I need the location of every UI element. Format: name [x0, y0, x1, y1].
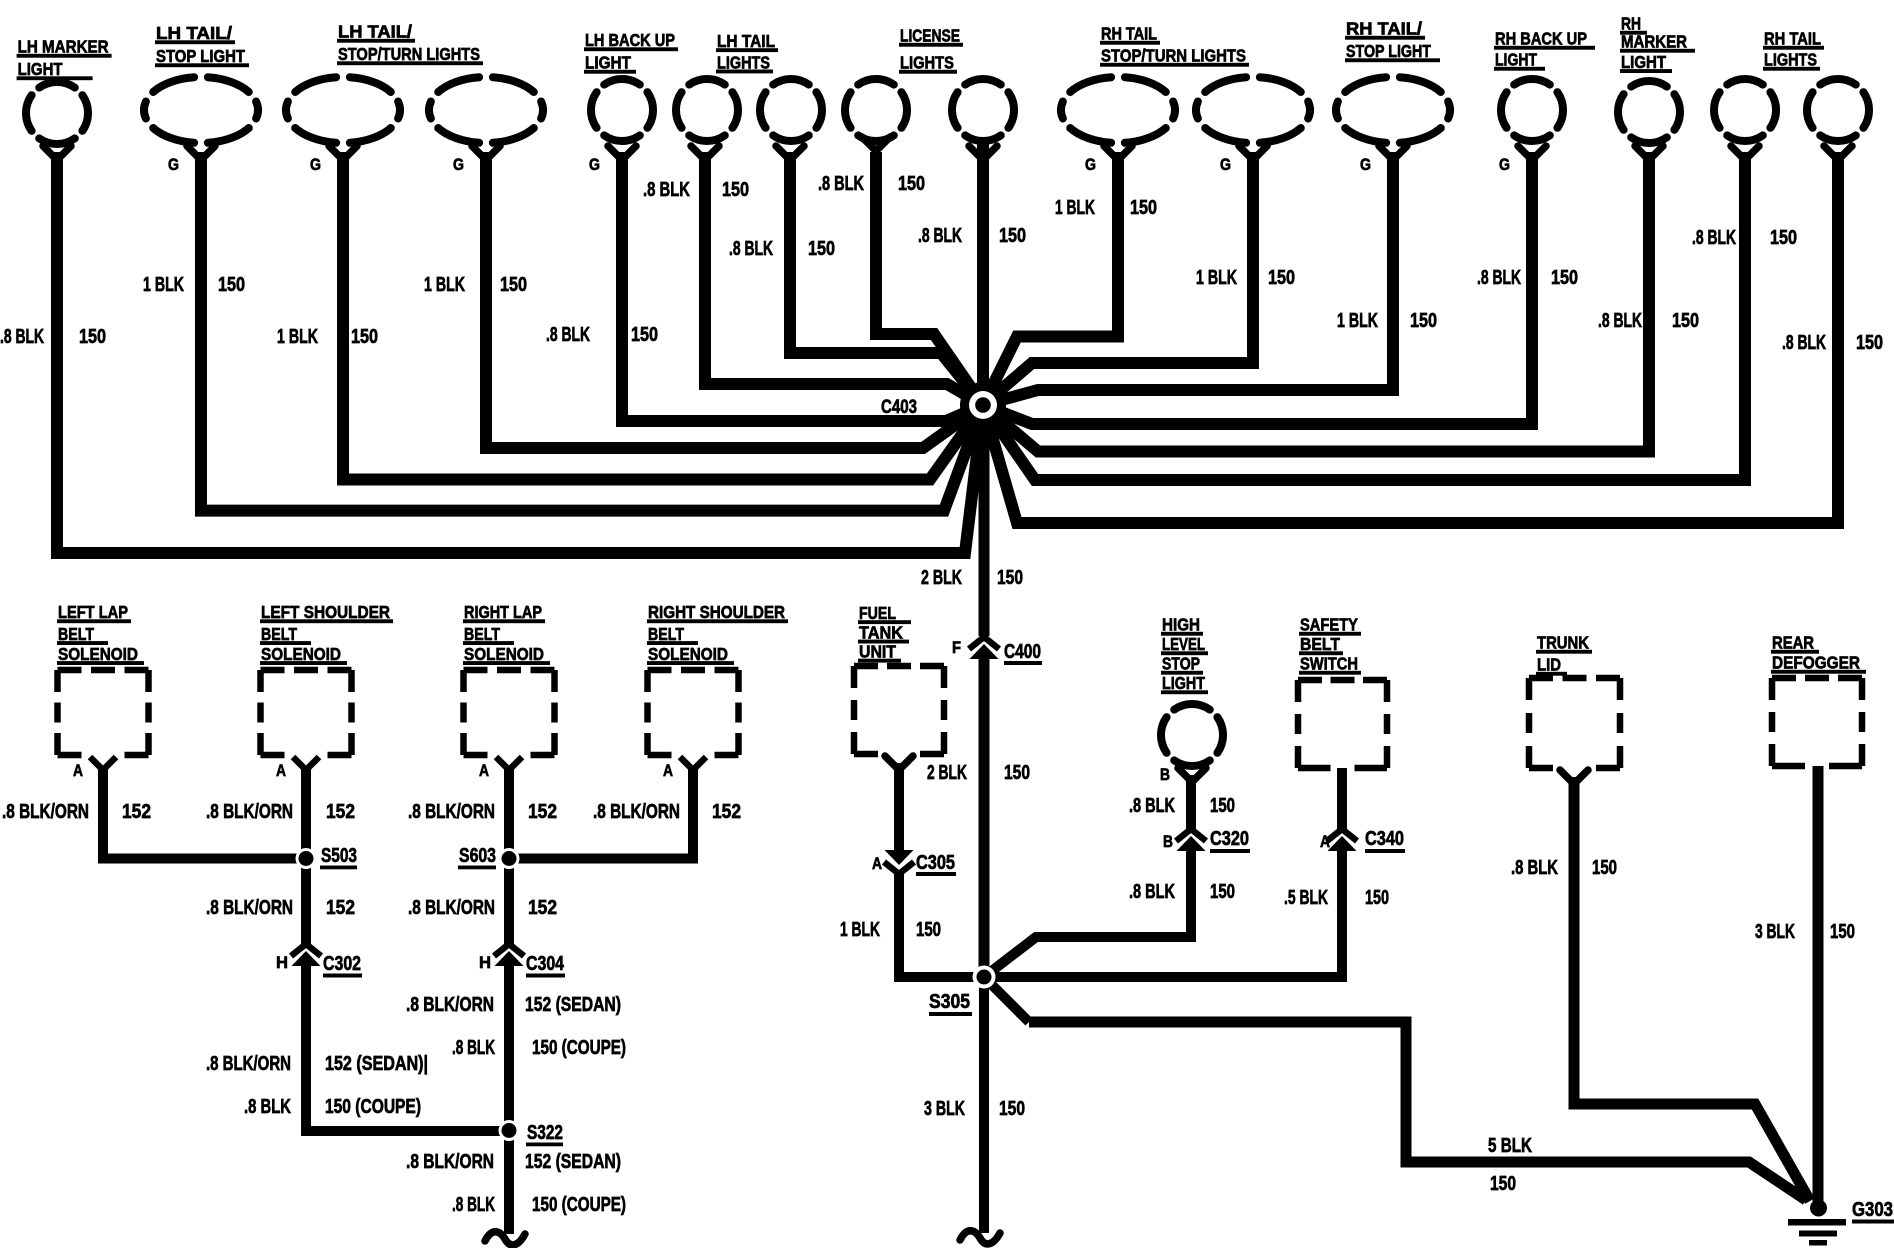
lamp RH TAIL/STOP/TURN 2 — [1196, 77, 1310, 174]
wire label 1 BLK 150 — [143, 274, 245, 296]
svg-text:FUEL: FUEL — [859, 603, 896, 623]
ground G303 — [1810, 1200, 1827, 1217]
svg-text:TANK: TANK — [859, 622, 903, 642]
lamp RH BACK UP LIGHT — [1499, 79, 1563, 174]
splice S503 — [296, 848, 317, 869]
svg-text:.8 BLK: .8 BLK — [244, 1096, 291, 1118]
label A C340 — [1320, 828, 1405, 853]
wire lamp x622 to C403 — [622, 152, 983, 421]
label LICENSE LIGHTS — [899, 26, 963, 74]
svg-text:LIGHT: LIGHT — [585, 53, 631, 73]
wire label .5 BLK 150 — [1284, 887, 1389, 909]
svg-text:150: 150 — [722, 179, 749, 201]
label S305 — [929, 991, 972, 1016]
component box REAR DEFOGGER — [1772, 678, 1862, 766]
svg-text:S503: S503 — [321, 845, 357, 867]
label H C302 — [276, 953, 362, 978]
wire lamp x876 to C403 — [876, 152, 983, 405]
svg-text:A: A — [479, 761, 489, 780]
svg-text:.8 BLK/ORN: .8 BLK/ORN — [593, 801, 680, 823]
svg-text:150: 150 — [1130, 197, 1157, 219]
svg-text:150 (COUPE): 150 (COUPE) — [532, 1194, 626, 1216]
wire lamp x1745 to C403 — [983, 152, 1745, 480]
wire lamp x790 to C403 — [790, 152, 983, 405]
connector V RIGHT SHOULDER — [680, 757, 706, 770]
svg-text:C403: C403 — [881, 397, 917, 418]
label H C304 — [479, 953, 565, 978]
svg-text:SAFETY: SAFETY — [1300, 615, 1358, 635]
svg-text:SOLENOID: SOLENOID — [648, 644, 728, 664]
wire lamp x201 to C403 — [201, 152, 983, 511]
svg-text:.8 BLK: .8 BLK — [729, 238, 773, 260]
label RIGHT LAP BELT SOLENOID — [463, 602, 550, 665]
svg-text:150 (COUPE): 150 (COUPE) — [325, 1096, 421, 1118]
svg-text:A: A — [1320, 832, 1330, 851]
svg-text:.8 BLK: .8 BLK — [546, 324, 590, 346]
continuation hook bottom left — [485, 1232, 525, 1245]
component box LEFT SHOULDER BELT SOLENOID — [261, 670, 352, 755]
svg-text:.8 BLK: .8 BLK — [1598, 310, 1642, 332]
svg-text:150: 150 — [1410, 310, 1437, 332]
connector C305 — [885, 850, 914, 865]
component box RIGHT LAP BELT SOLENOID — [464, 670, 555, 755]
lamp RH TAIL LIGHTS 2 — [1807, 79, 1869, 160]
wire lamp to C320 — [1186, 775, 1196, 830]
svg-text:REAR: REAR — [1772, 633, 1814, 653]
wire lamp x486 to C403 — [486, 152, 983, 448]
svg-text:STOP LIGHT: STOP LIGHT — [1346, 41, 1431, 61]
label HIGH LEVEL STOP LIGHT — [1161, 615, 1208, 695]
svg-text:SOLENOID: SOLENOID — [464, 644, 544, 664]
svg-text:A: A — [663, 761, 673, 780]
svg-text:150: 150 — [1551, 267, 1578, 289]
svg-text:F: F — [952, 638, 961, 657]
label LH TAIL LIGHTS — [716, 31, 778, 73]
svg-text:TRUNK: TRUNK — [1537, 633, 1589, 653]
label S503 — [320, 845, 357, 869]
continuation hook bottom center — [960, 1231, 1000, 1244]
label REAR DEFOGGER — [1771, 633, 1866, 674]
lamp RH MARKER LIGHT — [1618, 81, 1680, 160]
connector Y fuel tank — [885, 756, 913, 770]
wire license lamp2 down to C403 — [977, 143, 989, 405]
label FUEL TANK UNIT — [858, 603, 911, 663]
wire label .8 BLK/ORN 152 — [593, 801, 741, 823]
svg-text:A: A — [73, 761, 83, 780]
svg-text:RH TAIL: RH TAIL — [1101, 24, 1157, 44]
svg-text:G: G — [168, 155, 179, 174]
wire label .8 BLK 150 — [1511, 857, 1617, 879]
wire lamp x57 to C403 — [57, 152, 983, 553]
svg-text:150: 150 — [1770, 227, 1797, 249]
wire label .8 BLK/ORN 152 — [408, 801, 557, 823]
svg-text:150: 150 — [1210, 881, 1235, 903]
lamp LH TAIL/STOP/TURN 2 — [429, 77, 543, 174]
wire C400 down to S305 — [979, 654, 990, 977]
label A C305 — [872, 852, 956, 876]
svg-text:LH TAIL/: LH TAIL/ — [156, 23, 232, 43]
svg-text:.8 BLK: .8 BLK — [452, 1037, 495, 1059]
wire lamp x1649 to C403 — [983, 152, 1649, 452]
wire label .8 BLK/ORN 152 (SEDAN) — [406, 994, 621, 1016]
svg-text:150: 150 — [1210, 795, 1235, 817]
svg-text:G: G — [1360, 155, 1371, 174]
label LEFT LAP BELT SOLENOID — [57, 602, 144, 665]
svg-text:152 (SEDAN): 152 (SEDAN) — [525, 994, 621, 1016]
svg-text:S322: S322 — [527, 1122, 563, 1144]
svg-text:152: 152 — [122, 801, 151, 823]
svg-text:B: B — [1160, 765, 1170, 784]
svg-text:152 (SEDAN): 152 (SEDAN) — [525, 1151, 621, 1173]
svg-text:.8 BLK: .8 BLK — [818, 173, 864, 195]
component box FUEL TANK UNIT — [854, 666, 944, 754]
svg-text:G303: G303 — [1852, 1199, 1893, 1221]
svg-text:G: G — [589, 155, 600, 174]
svg-text:LIGHTS: LIGHTS — [900, 53, 954, 73]
svg-text:MARKER: MARKER — [1621, 32, 1687, 52]
svg-text:STOP: STOP — [1162, 654, 1200, 674]
connector Y high level stop light — [1178, 768, 1206, 782]
wire lamp x1532 to C403 — [983, 152, 1532, 424]
svg-text:150: 150 — [898, 173, 925, 195]
label G303 — [1852, 1199, 1894, 1224]
svg-text:1 BLK: 1 BLK — [143, 274, 184, 296]
wire label 1 BLK 150 — [277, 326, 378, 348]
svg-text:LID: LID — [1537, 655, 1561, 675]
label RH MARKER LIGHT — [1620, 14, 1695, 73]
wire label 1 BLK 150 — [1337, 310, 1437, 332]
svg-text:SOLENOID: SOLENOID — [58, 644, 138, 664]
svg-text:1 BLK: 1 BLK — [424, 274, 465, 296]
wire C305 down to S305 — [899, 874, 984, 977]
wire label .8 BLK 150 (COUPE) — [452, 1194, 626, 1216]
component box LEFT LAP BELT SOLENOID — [58, 670, 149, 755]
lamp RH TAIL/STOP/TURN 1 — [1061, 77, 1175, 174]
svg-text:S305: S305 — [929, 991, 970, 1013]
label LH TAIL/STOP/TURN LIGHTS — [337, 22, 483, 66]
svg-text:HIGH: HIGH — [1162, 615, 1200, 635]
svg-text:.8 BLK/ORN: .8 BLK/ORN — [206, 897, 293, 919]
svg-text:152: 152 — [528, 801, 557, 823]
wire label .8 BLK 150 — [1692, 227, 1797, 249]
svg-text:STOP LIGHT: STOP LIGHT — [156, 46, 245, 66]
svg-text:LIGHT: LIGHT — [1495, 50, 1537, 70]
label LH BACK UP LIGHT — [584, 30, 678, 74]
wire label .8 BLK 150 — [1129, 881, 1235, 903]
wire rear defogger to ground G303 — [1813, 766, 1824, 1203]
svg-text:150: 150 — [500, 274, 527, 296]
wire label .8 BLK/ORN 152 (SEDAN) — [406, 1151, 621, 1173]
lamp RH TAIL LIGHTS 1 — [1714, 79, 1776, 160]
label RIGHT SHOULDER BELT SOLENOID — [647, 602, 788, 665]
svg-text:BELT: BELT — [648, 624, 684, 644]
wire label 1 BLK 150 — [424, 274, 527, 296]
svg-text:A: A — [872, 854, 882, 873]
svg-text:150: 150 — [999, 1098, 1025, 1120]
wire C304 down through S322 to bottom hook — [504, 961, 514, 1234]
wire safety belt switch to C340 — [1337, 768, 1347, 830]
svg-text:.5 BLK: .5 BLK — [1284, 887, 1328, 909]
svg-text:.8 BLK: .8 BLK — [1477, 267, 1521, 289]
svg-text:LH TAIL/: LH TAIL/ — [338, 22, 412, 42]
wire C340 down to S305 — [984, 846, 1342, 977]
svg-text:DEFOGGER: DEFOGGER — [1772, 653, 1860, 673]
wire label .8 BLK/ORN 152 — [408, 897, 557, 919]
svg-text:B: B — [1163, 832, 1173, 851]
wire label .8 BLK/ORN 152 — [206, 801, 355, 823]
svg-text:G: G — [1085, 155, 1096, 174]
svg-text:150: 150 — [1268, 267, 1295, 289]
svg-text:.8 BLK: .8 BLK — [0, 326, 44, 348]
splice S603 — [499, 848, 520, 869]
connector C302 — [291, 944, 321, 956]
label RH BACK UP LIGHT — [1494, 29, 1595, 71]
svg-text:.8 BLK/ORN: .8 BLK/ORN — [406, 1151, 494, 1173]
label S603 — [458, 845, 496, 869]
lamp LH MARKER LIGHT — [26, 82, 88, 160]
svg-text:1 BLK: 1 BLK — [1055, 197, 1095, 219]
wire label .8 BLK 150 (COUPE) — [452, 1037, 626, 1059]
svg-text:G: G — [1499, 155, 1510, 174]
wire left lap to S503 — [103, 766, 306, 859]
svg-text:150: 150 — [218, 274, 245, 296]
svg-text:H: H — [276, 953, 288, 972]
svg-text:150: 150 — [1672, 310, 1699, 332]
svg-text:.8 BLK: .8 BLK — [1782, 332, 1826, 354]
svg-text:150: 150 — [1490, 1173, 1516, 1195]
svg-text:.8 BLK/ORN: .8 BLK/ORN — [408, 897, 495, 919]
svg-text:LH MARKER: LH MARKER — [18, 37, 109, 57]
svg-text:C400: C400 — [1004, 641, 1041, 663]
wire C320 to S305 — [984, 846, 1191, 977]
svg-text:.8 BLK: .8 BLK — [1692, 227, 1736, 249]
svg-text:152: 152 — [528, 897, 557, 919]
lamp LH BACK UP LIGHT — [589, 79, 653, 174]
svg-text:1 BLK: 1 BLK — [1196, 267, 1237, 289]
connector V RIGHT LAP — [496, 757, 522, 770]
connector C340 — [1327, 829, 1357, 841]
wire label 1 BLK 150 — [1055, 197, 1157, 219]
svg-text:LEFT SHOULDER: LEFT SHOULDER — [261, 602, 390, 622]
label LEFT SHOULDER BELT SOLENOID — [260, 602, 393, 665]
wire label .8 BLK 150 — [1129, 795, 1235, 817]
svg-text:150: 150 — [79, 326, 106, 348]
svg-text:SOLENOID: SOLENOID — [261, 644, 341, 664]
wire label .8 BLK 150 (COUPE) — [244, 1096, 421, 1118]
wire label .8 BLK 150 — [1477, 267, 1578, 289]
svg-text:LIGHT: LIGHT — [1621, 52, 1666, 72]
wire C302 down to S322 — [306, 961, 509, 1131]
wire label 3 BLK 150 — [924, 1098, 1025, 1120]
svg-text:152: 152 — [326, 801, 355, 823]
svg-text:.8 BLK: .8 BLK — [1511, 857, 1558, 879]
svg-text:H: H — [479, 953, 491, 972]
svg-text:STOP/TURN LIGHTS: STOP/TURN LIGHTS — [1101, 46, 1246, 66]
wire lamp x1253 to C403 — [983, 152, 1253, 405]
svg-text:.8 BLK/ORN: .8 BLK/ORN — [406, 994, 494, 1016]
wire lamp x1393 to C403 — [983, 152, 1393, 405]
svg-text:SWITCH: SWITCH — [1300, 654, 1358, 674]
svg-text:G: G — [453, 155, 464, 174]
wire label .8 BLK 150 — [1598, 310, 1699, 332]
svg-text:RIGHT LAP: RIGHT LAP — [464, 602, 542, 622]
label RH TAIL/STOP LIGHT — [1345, 19, 1440, 63]
svg-text:LICENSE: LICENSE — [900, 26, 960, 46]
label RH TAIL STOP/TURN LIGHTS — [1100, 24, 1249, 67]
svg-text:C305: C305 — [916, 852, 955, 874]
svg-text:.8 BLK: .8 BLK — [1129, 795, 1175, 817]
wire label .8 BLK/ORN 152 — [2, 801, 151, 823]
wire trunk lid to ground G303 — [1574, 777, 1810, 1201]
label LH MARKER LIGHT — [17, 37, 112, 81]
svg-text:152: 152 — [712, 801, 741, 823]
svg-text:150: 150 — [1830, 921, 1855, 943]
svg-text:.8 BLK: .8 BLK — [1129, 881, 1175, 903]
wire fuel tank to C305 — [894, 763, 904, 856]
wire right lap through S603 to C304 — [504, 766, 514, 944]
svg-text:3 BLK: 3 BLK — [1755, 921, 1795, 943]
svg-text:.8 BLK/ORN: .8 BLK/ORN — [206, 801, 293, 823]
svg-text:.8 BLK: .8 BLK — [643, 179, 690, 201]
svg-text:RIGHT SHOULDER: RIGHT SHOULDER — [648, 602, 785, 622]
component box TRUNK LID — [1529, 678, 1620, 768]
splice S322 — [499, 1120, 520, 1141]
svg-text:LIGHTS: LIGHTS — [717, 52, 770, 72]
connector C304 — [494, 944, 524, 956]
svg-text:150: 150 — [1365, 887, 1389, 909]
svg-text:C304: C304 — [526, 953, 565, 975]
component box RIGHT SHOULDER BELT SOLENOID — [648, 670, 739, 755]
svg-text:LH BACK UP: LH BACK UP — [585, 30, 675, 50]
connector node C403 — [960, 382, 1006, 428]
wire label 3 BLK 150 — [1755, 921, 1855, 943]
wire label .8 BLK 150 — [643, 179, 749, 201]
svg-text:150: 150 — [916, 919, 941, 941]
splice S305 — [984, 937, 1036, 1022]
svg-text:150: 150 — [999, 225, 1026, 247]
svg-text:BELT: BELT — [58, 624, 94, 644]
label SAFETY BELT SWITCH — [1299, 615, 1361, 675]
wire C403 down to C400 — [979, 424, 990, 636]
lamp LH TAIL LIGHTS 2 — [760, 79, 822, 160]
label B C320 — [1163, 828, 1250, 853]
svg-text:A: A — [276, 761, 286, 780]
label TRUNK LID — [1536, 633, 1592, 676]
svg-text:150: 150 — [351, 326, 378, 348]
svg-text:C340: C340 — [1365, 828, 1404, 850]
svg-text:C302: C302 — [323, 953, 361, 975]
wire S305 to ground G303 (5 BLK 150) — [1029, 1022, 1806, 1200]
svg-text:LEFT LAP: LEFT LAP — [58, 602, 128, 622]
svg-text:G: G — [310, 155, 321, 174]
wire label 1 BLK 150 — [840, 919, 941, 941]
svg-text:.8 BLK: .8 BLK — [918, 225, 962, 247]
svg-text:150: 150 — [1856, 332, 1883, 354]
svg-text:.8 BLK/ORN: .8 BLK/ORN — [2, 801, 89, 823]
wire S305 down (3 BLK) — [979, 977, 989, 1233]
svg-text:S603: S603 — [459, 845, 496, 867]
label F C400 — [952, 638, 1042, 665]
svg-text:RH TAIL/: RH TAIL/ — [1346, 19, 1422, 39]
wire label .8 BLK 150 — [1782, 332, 1883, 354]
svg-text:.8 BLK/ORN: .8 BLK/ORN — [206, 1053, 291, 1075]
wire label .8 BLK 150 — [729, 238, 835, 260]
svg-text:BELT: BELT — [261, 624, 297, 644]
label LH TAIL/STOP LIGHT — [155, 23, 249, 67]
svg-text:C320: C320 — [1210, 828, 1249, 850]
svg-text:1 BLK: 1 BLK — [277, 326, 318, 348]
svg-text:LIGHT: LIGHT — [1162, 673, 1205, 693]
connector C400 — [969, 637, 999, 649]
connector V LEFT SHOULDER — [293, 757, 319, 770]
svg-text:150: 150 — [1004, 762, 1030, 784]
svg-text:152 (SEDAN)|: 152 (SEDAN)| — [325, 1053, 428, 1075]
svg-text:LIGHTS: LIGHTS — [1764, 50, 1817, 70]
label C403 — [881, 397, 919, 420]
svg-text:G: G — [1220, 155, 1231, 174]
svg-text:.8 BLK: .8 BLK — [452, 1194, 495, 1216]
wire left shoulder through S503 to C302 — [301, 766, 311, 944]
svg-text:.8 BLK/ORN: .8 BLK/ORN — [408, 801, 495, 823]
connector V LEFT LAP — [90, 757, 116, 770]
svg-text:BELT: BELT — [464, 624, 500, 644]
component box SAFETY BELT SWITCH — [1298, 680, 1387, 768]
svg-text:2 BLK: 2 BLK — [927, 762, 967, 784]
svg-text:5 BLK: 5 BLK — [1488, 1135, 1532, 1157]
label S322 — [526, 1122, 563, 1146]
wire label .8 BLK/ORN 152 — [206, 897, 355, 919]
wire label 1 BLK 150 — [1196, 267, 1295, 289]
lamp LH TAIL/STOP/TURN 1 — [286, 77, 400, 174]
wire label 2 BLK 150 (lower) — [927, 762, 1030, 784]
svg-text:150: 150 — [997, 567, 1023, 589]
lamp LH TAIL LIGHTS 1 — [676, 79, 738, 160]
svg-text:3 BLK: 3 BLK — [924, 1098, 965, 1120]
svg-text:2 BLK: 2 BLK — [921, 567, 962, 589]
svg-text:LEVEL: LEVEL — [1162, 634, 1205, 654]
svg-text:150: 150 — [808, 238, 835, 260]
wire label 2 BLK 150 (upper) — [921, 567, 1023, 589]
lamp HIGH LEVEL STOP LIGHT — [1174, 704, 1210, 710]
svg-text:RH BACK UP: RH BACK UP — [1495, 29, 1587, 49]
wire label .8 BLK 150 — [546, 324, 658, 346]
connector Y trunk lid — [1560, 770, 1588, 784]
wire label .8 BLK/ORN 152 (SEDAN) — [206, 1053, 428, 1075]
svg-text:150: 150 — [1592, 857, 1617, 879]
wire label .8 BLK 150 — [818, 173, 925, 195]
svg-text:RH: RH — [1621, 14, 1641, 34]
wire lamp x1838 to C403 — [983, 152, 1838, 523]
lamp RH TAIL/STOP LIGHT — [1336, 77, 1450, 174]
wire label .8 BLK 150 — [0, 326, 106, 348]
svg-text:1 BLK: 1 BLK — [840, 919, 880, 941]
svg-text:1 BLK: 1 BLK — [1337, 310, 1378, 332]
wire lamp x1118 to C403 — [983, 152, 1118, 405]
wire lamp x705 to C403 — [705, 152, 983, 405]
svg-text:LIGHT: LIGHT — [18, 59, 63, 79]
svg-text:LH TAIL: LH TAIL — [717, 31, 775, 51]
lamp LICENSE LIGHTS 1 — [845, 79, 907, 151]
svg-text:STOP/TURN LIGHTS: STOP/TURN LIGHTS — [338, 44, 480, 64]
lamp LICENSE LIGHTS 2 — [952, 79, 1014, 160]
label RH TAIL LIGHTS — [1763, 29, 1824, 71]
lamp LH TAIL/STOP LIGHT 1 — [144, 77, 258, 174]
wire label .8 BLK 150 — [918, 225, 1026, 247]
svg-text:UNIT: UNIT — [859, 642, 896, 662]
svg-text:150 (COUPE): 150 (COUPE) — [532, 1037, 626, 1059]
wire lamp x343 to C403 — [343, 152, 983, 480]
connector C320 — [1176, 829, 1206, 841]
